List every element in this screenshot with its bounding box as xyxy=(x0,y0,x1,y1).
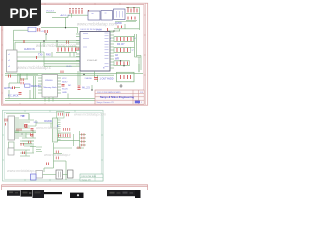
resistor R124 xyxy=(9,75,11,78)
title block sheet 1 xyxy=(95,90,144,104)
svg-text:VCC: VCC xyxy=(62,78,67,80)
svg-text:SCLK: SCLK xyxy=(62,89,68,91)
wire left rails xyxy=(17,52,80,66)
resistor R205 xyxy=(58,113,68,117)
svg-text:WR: WR xyxy=(115,58,119,61)
resistor R209 xyxy=(23,152,25,155)
svg-text:www.mcbidatap: www.mcbidatap xyxy=(36,126,59,130)
svg-text:P.C JACK: P.C JACK xyxy=(8,95,19,98)
IC U201 xyxy=(8,148,14,155)
svg-text:CN2001: CN2001 xyxy=(44,121,53,123)
wire connect bottom boxes xyxy=(43,174,68,176)
capacitor C120 xyxy=(94,78,98,80)
svg-text:www.mcbidatap.c: www.mcbidatap.c xyxy=(17,65,52,70)
resistor array RN104 xyxy=(117,48,128,52)
svg-text:1 OUT AVDD: 1 OUT AVDD xyxy=(100,78,114,81)
svg-text:Sanyo & Nikon Engineering: Sanyo & Nikon Engineering xyxy=(100,95,134,99)
resistor R210 xyxy=(56,151,58,160)
wire rails C110 xyxy=(115,61,129,66)
svg-text:MAIN BD: MAIN BD xyxy=(31,85,41,88)
capacitor C104 xyxy=(96,28,120,32)
IC U106 memory stick xyxy=(42,75,58,98)
svg-text:www.mcbidatap.c: www.mcbidatap.c xyxy=(44,153,71,157)
node label page2 xyxy=(22,116,53,123)
capacitor row C122 xyxy=(121,75,131,79)
wire bottom rails xyxy=(5,71,143,85)
junction dots bus xyxy=(43,40,57,42)
resistor R122 xyxy=(21,78,23,84)
IC U102 xyxy=(88,11,100,20)
svg-text:2 AVDD: 2 AVDD xyxy=(85,77,93,80)
capacitor C107 xyxy=(36,56,38,59)
svg-text:Sanyo 2/3: Sanyo 2/3 xyxy=(82,179,92,181)
resistor R101 xyxy=(70,10,82,14)
svg-text:DSC-D700 MAIN BOARD: DSC-D700 MAIN BOARD xyxy=(97,91,121,94)
photo thumb 3 xyxy=(107,190,141,198)
resistor R212 xyxy=(25,124,27,127)
IC U104 xyxy=(114,9,126,20)
sheet 1 border frame xyxy=(2,3,148,105)
wire vertical pair near R122 xyxy=(18,75,19,84)
node labels RN103 xyxy=(110,38,136,40)
connector CN202 blue xyxy=(31,174,37,180)
resistor R123 xyxy=(13,87,15,90)
wire near title block xyxy=(91,85,92,91)
svg-text:www.mcbidatap.com: www.mcbidatap.com xyxy=(36,43,77,48)
wire J201 top xyxy=(6,114,29,120)
wire rails RN103 xyxy=(115,36,133,41)
node label MAIN xyxy=(4,85,41,98)
junction dots R101 row xyxy=(69,8,82,9)
IC U203 xyxy=(68,170,74,178)
wire mid bus loop xyxy=(14,41,81,73)
ground GND1 xyxy=(120,84,123,87)
wire page2 trunk xyxy=(44,143,72,180)
svg-text:NC: NC xyxy=(68,85,72,87)
node tick page2 xyxy=(57,125,59,127)
junction dot rails xyxy=(83,74,84,75)
connector J201 xyxy=(8,116,15,140)
resistor R207 xyxy=(59,134,71,137)
svg-text:TX0: TX0 xyxy=(38,54,43,57)
capacitor C103 xyxy=(45,30,47,33)
svg-text:www.mcbidatap.com: www.mcbidatap.com xyxy=(74,113,106,117)
svg-text:Sanyo Camera OY: Sanyo Camera OY xyxy=(97,101,115,104)
wire page2 lower-left xyxy=(14,147,36,157)
resistor R215 xyxy=(29,141,31,144)
crystal X101 xyxy=(25,84,31,87)
node labels mid xyxy=(24,48,51,57)
IC U103 xyxy=(101,11,113,21)
wire page2 left mesh xyxy=(15,114,37,145)
sheet 2 border ticks xyxy=(3,110,104,181)
svg-text:SDIO: SDIO xyxy=(62,82,68,84)
capacitor row C201 xyxy=(82,133,84,146)
resistor box RB201 xyxy=(57,112,65,119)
node labels U106 right xyxy=(62,78,72,94)
resistor R204 xyxy=(31,129,34,137)
IC U101 left pin wires xyxy=(76,34,80,66)
capacitor C101 row xyxy=(128,17,135,20)
svg-text:ANT 5C: ANT 5C xyxy=(4,87,13,90)
svg-text:AVDD_IO: AVDD_IO xyxy=(61,14,71,17)
IC U106 pin stubs xyxy=(38,78,61,102)
svg-text:DSC-D700 SUB: DSC-D700 SUB xyxy=(82,176,97,178)
wire rails R207 xyxy=(58,113,72,138)
wire comb left xyxy=(36,147,42,152)
junction dots page2 xyxy=(22,126,34,135)
resistor R208 top xyxy=(78,147,80,150)
node label NET1 xyxy=(46,10,70,16)
junction dots top xyxy=(88,7,135,12)
title block sheet 2 xyxy=(80,174,103,181)
svg-text:www.mcbidatap.com: www.mcbidatap.com xyxy=(77,22,118,27)
wire loop right-bottom xyxy=(117,64,140,82)
resistor R214 xyxy=(21,143,23,146)
IC U202 xyxy=(36,171,43,179)
wire bottom bus xyxy=(5,90,95,100)
wire box around C110 xyxy=(114,61,130,66)
sheet 2 border frame xyxy=(3,110,104,181)
junction dots right xyxy=(120,60,125,66)
capacitor C121 xyxy=(19,93,22,95)
svg-text:IC6001 A2: IC6001 A2 xyxy=(87,59,98,62)
wire rails RN104 xyxy=(115,47,130,52)
wire right cluster xyxy=(114,8,140,30)
node labels right xyxy=(115,43,125,61)
wire right trunks xyxy=(130,34,141,72)
resistor R120 xyxy=(78,86,81,89)
svg-text:Memory Stick: Memory Stick xyxy=(44,86,58,89)
connector J201 pin wires xyxy=(15,118,20,138)
svg-text:GND: GND xyxy=(62,92,67,94)
IC U105 connector xyxy=(7,50,18,72)
resistor R213 xyxy=(31,133,33,136)
capacitor C105 left of U101 xyxy=(77,48,79,51)
PDF badge xyxy=(0,0,41,26)
node labels RN104 xyxy=(132,50,134,52)
capacitor C102 row xyxy=(118,26,122,29)
capacitor C108 on bus xyxy=(67,40,69,43)
left cluster tuner xyxy=(9,75,38,89)
svg-text:AUDIO IN: AUDIO IN xyxy=(24,48,35,51)
sheet 1 border extra line xyxy=(145,3,147,105)
wire page2 mid xyxy=(36,123,58,128)
capacitor C106 xyxy=(61,71,63,74)
svg-text:D0..D7: D0..D7 xyxy=(117,43,125,46)
resistor R121 xyxy=(62,85,65,87)
sheet 1 border tick marks xyxy=(2,3,146,104)
svg-text:CLK5: CLK5 xyxy=(66,66,72,68)
svg-text:AV_2.5: AV_2.5 xyxy=(82,87,90,90)
resistor array RN103 xyxy=(117,37,131,41)
wire rail under R101 row xyxy=(68,14,88,16)
wire vertical pair bottom-left xyxy=(34,76,36,99)
wire bottom of J202 xyxy=(57,134,80,146)
IC U204 below connector xyxy=(9,142,15,148)
relay K101 xyxy=(14,27,40,40)
resistor R203 xyxy=(25,125,28,128)
wire box around RN103 xyxy=(114,36,134,41)
node label NET2 xyxy=(115,22,122,25)
photo thumb 1 xyxy=(7,190,44,198)
resistor row R110-R114 xyxy=(58,48,76,52)
photo thumb 2 xyxy=(70,193,84,198)
svg-text:b: b xyxy=(110,38,111,40)
resistor R201 xyxy=(5,119,7,126)
wire rails resistor row xyxy=(56,47,77,53)
transformer T201 xyxy=(56,170,63,179)
svg-text:a2: a2 xyxy=(132,50,134,52)
svg-text:D0 D1 D2 D3 D4 D5 D6: D0 D1 D2 D3 D4 D5 D6 xyxy=(81,29,103,31)
svg-text:PDF: PDF xyxy=(10,5,38,21)
wire mesh extra rows xyxy=(19,120,36,146)
svg-text:JP6000: JP6000 xyxy=(45,80,53,82)
svg-text:RX0: RX0 xyxy=(46,54,51,57)
capacitor row C110 xyxy=(117,62,128,66)
IC U101 right pin wires xyxy=(110,32,114,68)
svg-text:VCC3.3: VCC3.3 xyxy=(46,10,54,12)
photo thumb 1 arm xyxy=(44,192,62,194)
connector J202 xyxy=(53,118,61,142)
resistor R109 on bus xyxy=(23,40,25,43)
wire top-left bus xyxy=(41,13,78,41)
resistor array RN102 xyxy=(128,9,137,13)
wire page2 right cluster xyxy=(76,131,86,148)
wire box around RN104 xyxy=(114,47,131,52)
resistor R206 xyxy=(64,128,70,131)
svg-text:5.1V: 5.1V xyxy=(41,31,46,33)
svg-text:www.mcbidatap.c: www.mcbidatap.c xyxy=(7,169,37,173)
IC U101 main xyxy=(80,29,110,71)
resistor R211 xyxy=(47,163,49,166)
junction dot xyxy=(65,27,66,28)
resistor cluster R202 xyxy=(17,129,21,132)
sheet 3 top border xyxy=(2,185,149,190)
sheet 2 inner border xyxy=(4,112,101,179)
